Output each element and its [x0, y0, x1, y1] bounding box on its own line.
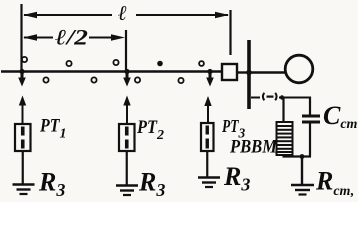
- insulator bead above bus 1: [22, 57, 27, 62]
- node junction PT3 on bus: [207, 69, 212, 74]
- insulator bead below bus 3: [135, 77, 140, 82]
- svg-text:ℓ: ℓ: [118, 1, 127, 25]
- spark gap upper arrow PT3 (down from bus): [206, 72, 214, 87]
- ground PT2: [116, 186, 138, 196]
- svg-text:PT1: PT1: [39, 116, 66, 142]
- insulator bead above bus 5: [199, 61, 204, 66]
- insulator bead above bus 4 (filled): [157, 61, 163, 67]
- wire PT2 to ground: [126, 151, 128, 185]
- arrester PBBM electrode (thick vertical lead): [247, 40, 251, 109]
- label R3 of PT1: [38, 168, 65, 201]
- node junction PT1 on bus: [19, 69, 24, 74]
- svg-text:R3: R3: [38, 168, 65, 201]
- spark gap upper arrow PT2 (down from bus): [123, 72, 131, 87]
- insulator bead above bus 3: [113, 60, 118, 65]
- label R3 of PT3: [223, 162, 250, 195]
- matching box on feeder: [222, 64, 237, 80]
- wire capacitor top lead: [309, 97, 311, 115]
- ground PT1: [13, 185, 35, 195]
- wire coil bottom lead: [282, 154, 284, 157]
- wire PT3 to ground: [206, 151, 208, 178]
- label R3 of PT2: [138, 168, 165, 201]
- label Rst: [315, 167, 354, 200]
- label dimension l: [118, 1, 127, 25]
- wire bus from feed point to generator: [251, 71, 286, 73]
- generator circle: [285, 55, 313, 83]
- svg-text:РВВМ: РВВМ: [229, 137, 278, 158]
- svg-text:PT2: PT2: [136, 117, 164, 143]
- node junction ground drop: [300, 154, 305, 159]
- capacitor Cst: [302, 116, 320, 122]
- node junction PT2 on bus: [124, 69, 129, 74]
- insulator bead below bus 2: [91, 77, 96, 82]
- wire dimension extension line left (x=21.5): [20, 4, 22, 71]
- label PT3: [221, 116, 245, 141]
- arrester PT2 tube body: [119, 124, 135, 151]
- insulator bead above bus 2: [66, 61, 71, 66]
- svg-text:Сст: Сст: [323, 101, 358, 132]
- drain coil Rst winding: [277, 122, 293, 155]
- node junction coil top: [280, 95, 284, 99]
- ground Rst: [291, 185, 314, 195]
- wire capacitor bottom lead: [309, 124, 311, 157]
- arrester PT1 tube body: [15, 124, 31, 151]
- node junction feed point on bus: [246, 70, 252, 76]
- wire PT1 to ground: [22, 151, 24, 184]
- svg-text:R3: R3: [223, 162, 250, 195]
- spark gap upper arrow PT1 (down from bus): [18, 72, 26, 87]
- dimension line l with arrows: [23, 12, 229, 18]
- label PT1: [39, 116, 66, 142]
- wire bottom bar coil/capacitor: [283, 155, 312, 157]
- wire coil top lead: [282, 98, 284, 123]
- dimension line l/2 with arrows: [23, 34, 125, 40]
- svg-text:ℓ/2: ℓ/2: [55, 25, 88, 50]
- wire bus between matching box and feed point: [237, 71, 248, 73]
- wire main feeder bus left section: [1, 70, 222, 73]
- insulator bead below bus 1: [43, 77, 48, 82]
- wire dimension extension line l right (x=230.5): [229, 10, 231, 55]
- label PBBM: [229, 137, 278, 158]
- wire feed point to (-) gap: [251, 97, 260, 99]
- wire drop to station ground: [301, 157, 303, 185]
- arrester PT3 tube body: [201, 123, 214, 151]
- wire (-) gap to capacitor corner: [279, 97, 311, 99]
- ground PT3: [198, 178, 220, 188]
- label PT2: [136, 117, 164, 143]
- insulator bead below bus 4: [178, 78, 183, 83]
- spark gap lower arrow PT1 (up toward bus): [19, 96, 26, 125]
- label dimension l/2: [55, 25, 88, 50]
- spark gap lower arrow PT2 (up toward bus): [123, 96, 130, 125]
- wire dimension extension line l/2 right (x=126): [125, 30, 127, 71]
- svg-text:Rст,: Rст,: [315, 167, 354, 200]
- spark gap lower arrow PT3 (up toward bus): [204, 96, 211, 123]
- svg-text:R3: R3: [138, 168, 165, 201]
- label Cst: [323, 101, 358, 132]
- label (-) gap: [263, 93, 277, 101]
